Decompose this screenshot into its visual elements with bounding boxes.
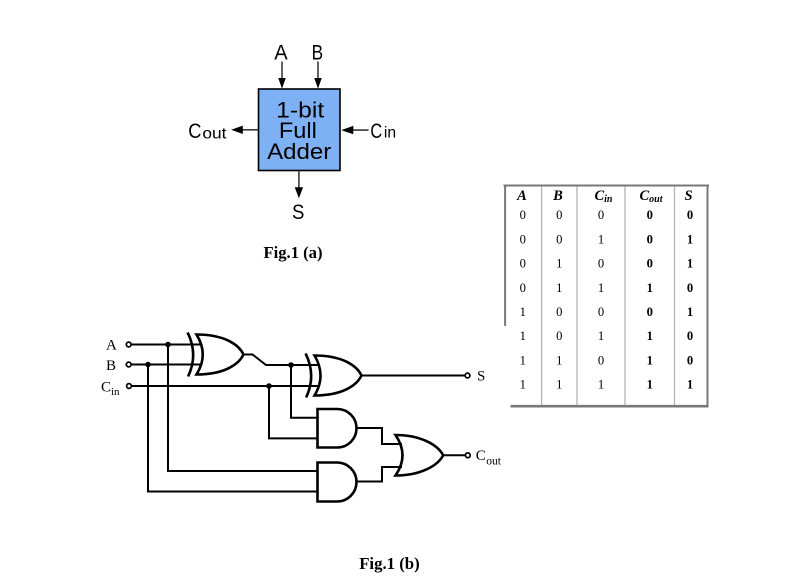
svg-text:0: 0 bbox=[556, 232, 562, 246]
svg-text:in: in bbox=[384, 125, 396, 142]
svg-text:0: 0 bbox=[598, 305, 604, 319]
truth table row 8 bbox=[520, 378, 693, 392]
truth table row 7 bbox=[520, 353, 693, 367]
wire A2 output to O1 bbox=[357, 467, 403, 482]
junction on wire B bbox=[145, 362, 151, 368]
svg-text:out: out bbox=[486, 456, 502, 468]
junction on wire A bbox=[165, 342, 171, 348]
svg-text:out: out bbox=[202, 125, 227, 142]
input arrow A bbox=[278, 62, 286, 89]
wire Cin branch to A1 bbox=[269, 386, 318, 438]
AND gate A1 bbox=[318, 409, 357, 448]
svg-text:0: 0 bbox=[647, 232, 653, 246]
wire B to X1 bbox=[131, 364, 202, 366]
svg-text:C: C bbox=[101, 380, 111, 396]
truth table row 1 bbox=[520, 208, 693, 222]
svg-text:S: S bbox=[684, 188, 692, 204]
wire O1 output to Cout bbox=[443, 454, 465, 456]
AND gate A2 bbox=[318, 463, 357, 502]
svg-text:in: in bbox=[111, 386, 120, 398]
svg-text:1: 1 bbox=[556, 353, 562, 367]
output terminal Cout bbox=[465, 453, 470, 458]
svg-text:1: 1 bbox=[520, 378, 526, 392]
XOR gate X1 bbox=[188, 333, 244, 377]
svg-text:0: 0 bbox=[556, 329, 562, 343]
wire X2 output to S bbox=[362, 375, 466, 377]
svg-text:1: 1 bbox=[556, 257, 562, 271]
svg-text:1: 1 bbox=[647, 281, 653, 295]
input terminal A bbox=[126, 342, 131, 347]
input arrow B bbox=[314, 62, 322, 89]
svg-text:1: 1 bbox=[520, 353, 526, 367]
svg-text:1: 1 bbox=[598, 378, 604, 392]
svg-text:C: C bbox=[370, 120, 382, 143]
output terminal S bbox=[465, 373, 470, 378]
svg-text:1: 1 bbox=[520, 305, 526, 319]
truth table row 2 bbox=[520, 232, 693, 246]
junction on X1 output wire bbox=[288, 362, 294, 368]
svg-text:0: 0 bbox=[647, 305, 653, 319]
svg-text:1: 1 bbox=[520, 329, 526, 343]
svg-text:A: A bbox=[274, 41, 287, 64]
svg-text:Cout: Cout bbox=[639, 188, 663, 205]
svg-text:0: 0 bbox=[598, 208, 604, 222]
wire B branch to A2 bbox=[148, 365, 318, 492]
svg-text:0: 0 bbox=[687, 281, 693, 295]
input terminal B bbox=[126, 362, 131, 367]
svg-text:0: 0 bbox=[520, 281, 526, 295]
svg-text:1: 1 bbox=[687, 257, 693, 271]
svg-text:0: 0 bbox=[520, 257, 526, 271]
svg-text:1: 1 bbox=[647, 378, 653, 392]
wire A branch to A2 bbox=[168, 345, 318, 472]
svg-text:B: B bbox=[106, 358, 116, 374]
input arrow Cin bbox=[341, 126, 368, 134]
svg-text:0: 0 bbox=[647, 257, 653, 271]
label Cout (schematic output) bbox=[476, 448, 502, 468]
full adder block U1 bbox=[259, 89, 341, 171]
svg-text:1: 1 bbox=[647, 329, 653, 343]
svg-text:1: 1 bbox=[687, 378, 693, 392]
svg-text:B: B bbox=[312, 41, 324, 64]
output arrow S bbox=[295, 171, 303, 198]
svg-text:Adder: Adder bbox=[267, 139, 331, 164]
svg-text:Fig.1 (a): Fig.1 (a) bbox=[264, 243, 323, 262]
svg-text:0: 0 bbox=[520, 232, 526, 246]
svg-text:1: 1 bbox=[556, 281, 562, 295]
input terminal Cin bbox=[127, 384, 132, 389]
svg-text:1: 1 bbox=[687, 232, 693, 246]
svg-text:1: 1 bbox=[598, 232, 604, 246]
svg-text:1: 1 bbox=[598, 281, 604, 295]
svg-text:C: C bbox=[188, 120, 201, 143]
OR gate O1 bbox=[396, 435, 444, 476]
wire Cin to X2 bbox=[131, 385, 319, 387]
svg-text:C: C bbox=[476, 448, 486, 464]
svg-text:Fig.1 (b): Fig.1 (b) bbox=[359, 554, 420, 573]
svg-text:0: 0 bbox=[647, 208, 653, 222]
wire A to X1 bbox=[131, 344, 202, 346]
label Cout (block output) bbox=[188, 120, 227, 143]
label Cin (block input) bbox=[370, 120, 396, 143]
truth table row 5 bbox=[520, 305, 693, 319]
svg-text:A: A bbox=[106, 338, 117, 354]
junction on wire Cin bbox=[266, 383, 272, 389]
XOR gate X2 bbox=[306, 354, 362, 398]
svg-text:0: 0 bbox=[687, 329, 693, 343]
truth table row 4 bbox=[520, 281, 693, 295]
svg-text:0: 0 bbox=[556, 305, 562, 319]
svg-text:A: A bbox=[516, 188, 527, 204]
svg-text:S: S bbox=[292, 201, 304, 224]
svg-text:1: 1 bbox=[687, 305, 693, 319]
wire A1 output to O1 bbox=[357, 428, 403, 444]
svg-text:1: 1 bbox=[556, 378, 562, 392]
svg-text:Cin: Cin bbox=[594, 188, 612, 205]
truth table row 6 bbox=[520, 329, 693, 343]
label Cin (schematic input) bbox=[101, 380, 120, 399]
svg-text:1: 1 bbox=[647, 353, 653, 367]
svg-text:B: B bbox=[552, 188, 563, 204]
truth table frame bbox=[504, 185, 710, 408]
wire X1 output branch to A1 bbox=[291, 365, 318, 418]
truth table row 3 bbox=[520, 257, 693, 271]
svg-text:0: 0 bbox=[598, 257, 604, 271]
svg-text:0: 0 bbox=[520, 208, 526, 222]
svg-text:0: 0 bbox=[556, 208, 562, 222]
output arrow Cout bbox=[231, 126, 258, 134]
svg-text:1: 1 bbox=[598, 329, 604, 343]
svg-text:S: S bbox=[477, 369, 485, 385]
truth table headers bbox=[516, 188, 692, 205]
svg-text:0: 0 bbox=[598, 353, 604, 367]
svg-text:0: 0 bbox=[687, 353, 693, 367]
svg-text:0: 0 bbox=[687, 208, 693, 222]
wire X1 output to X2 bbox=[244, 355, 320, 366]
truth table column separators bbox=[542, 187, 675, 406]
